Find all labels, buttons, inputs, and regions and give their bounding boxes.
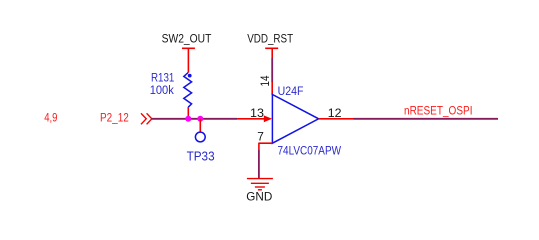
svg-text:4,9: 4,9 bbox=[44, 110, 57, 124]
pin 7 of U24F bbox=[259, 142, 273, 144]
power symbol SW2_OUT bbox=[182, 48, 195, 72]
svg-text:P2_12: P2_12 bbox=[100, 111, 129, 125]
pin 13 arrowhead bbox=[264, 115, 272, 122]
svg-text:GND: GND bbox=[246, 190, 272, 204]
pin 12 of U24F bbox=[319, 118, 354, 120]
svg-text:13: 13 bbox=[250, 106, 264, 120]
wire TP33 stub bbox=[199, 119, 201, 132]
testpoint TP33 circle bbox=[195, 132, 205, 142]
svg-text:100k: 100k bbox=[150, 83, 175, 97]
power symbol VDD_RST bbox=[265, 48, 278, 58]
svg-text:TP33: TP33 bbox=[187, 150, 215, 164]
svg-text:12: 12 bbox=[328, 106, 342, 120]
wire resistor bottom lead bbox=[187, 107, 189, 119]
wire output net bbox=[354, 118, 499, 120]
svg-text:SW2_OUT: SW2_OUT bbox=[162, 33, 212, 46]
ground symbol bbox=[247, 179, 273, 190]
svg-text:14: 14 bbox=[258, 75, 272, 86]
junction dot at resistor bbox=[185, 116, 191, 122]
buffer U24F triangle bbox=[272, 95, 318, 144]
svg-text:7: 7 bbox=[257, 130, 264, 144]
port chevron P2_12 bbox=[141, 113, 152, 124]
wire main net from port to pin 13 bbox=[152, 118, 237, 120]
svg-text:nRESET_OSPI: nRESET_OSPI bbox=[404, 104, 473, 117]
pin 14 of U24F bbox=[271, 82, 273, 95]
junction dot at TP33 bbox=[197, 116, 203, 122]
svg-text:VDD_RST: VDD_RST bbox=[247, 33, 293, 46]
svg-text:74LVC07APW: 74LVC07APW bbox=[278, 144, 342, 157]
wire VDD_RST to pin 14 bbox=[271, 58, 273, 82]
resistor R131 bbox=[184, 73, 192, 108]
pin 7 stub down bbox=[258, 143, 260, 150]
svg-text:U24F: U24F bbox=[278, 85, 304, 98]
pin 13 of U24F bbox=[237, 118, 268, 120]
wire to GND bbox=[258, 150, 260, 178]
